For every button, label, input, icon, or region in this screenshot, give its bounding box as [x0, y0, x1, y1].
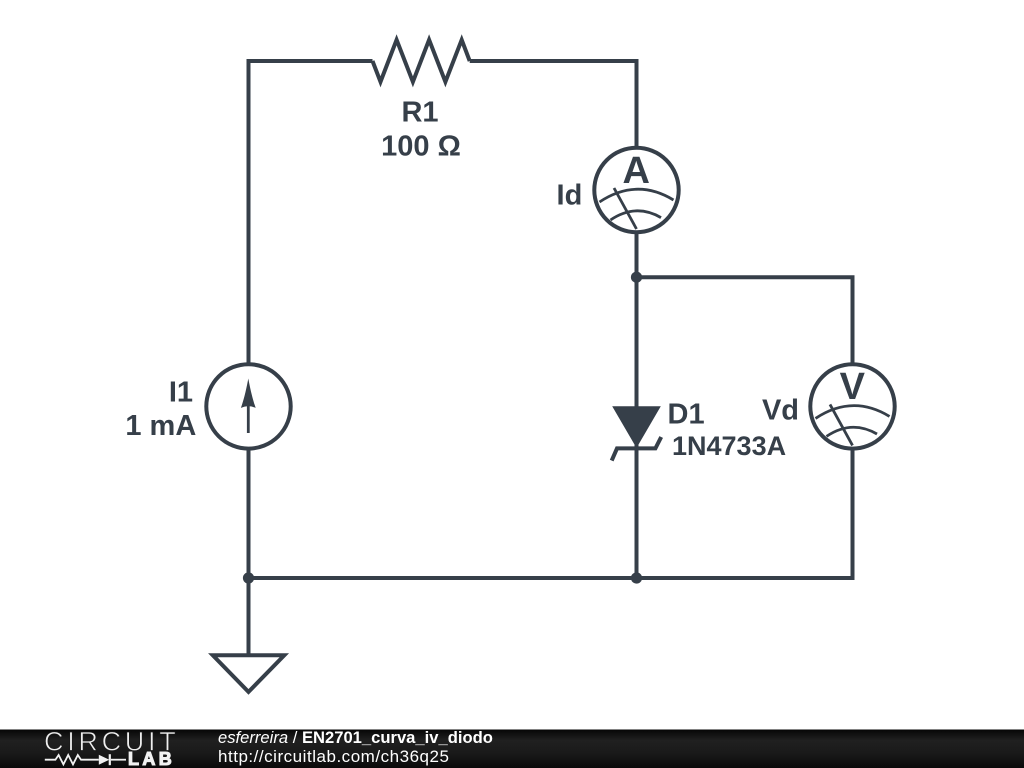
- ammeter scale arc 1: [600, 189, 674, 202]
- node bottom-left junction (dot): [243, 572, 254, 583]
- voltmeter U-Vd circle: [810, 364, 894, 448]
- svg-text:esferreira / EN2701_curva_iv_d: esferreira / EN2701_curva_iv_diodo: [218, 728, 493, 747]
- wire bottom rail: [249, 576, 637, 580]
- svg-text:1 mA: 1 mA: [125, 410, 196, 442]
- svg-text:LAB: LAB: [128, 749, 175, 768]
- ammeter U-Id circle: [594, 148, 678, 232]
- svg-text:A: A: [622, 150, 649, 192]
- wire voltmeter bottom to bottom rail: [637, 449, 853, 578]
- voltmeter scale arc 2: [827, 427, 878, 436]
- svg-text:D1: D1: [668, 399, 705, 431]
- svg-text:I1: I1: [169, 376, 193, 408]
- wire diode branch vertical: [635, 277, 639, 578]
- wire top-right segment down to ammeter: [470, 61, 637, 147]
- wire ammeter bottom to junction: [635, 233, 639, 277]
- ammeter scale arc 2: [611, 211, 662, 220]
- logo squiggle wire: [45, 755, 99, 764]
- footer bar: [0, 730, 1024, 768]
- svg-text:http://circuitlab.com/ch36q25: http://circuitlab.com/ch36q25: [218, 747, 449, 766]
- svg-text:V: V: [840, 366, 866, 408]
- voltmeter needle: [830, 404, 853, 445]
- svg-text:Vd: Vd: [762, 395, 799, 427]
- current source I1 circle: [206, 364, 290, 448]
- wire current source bottom to ground: [247, 449, 251, 656]
- diode D1 zener bar: [612, 437, 662, 461]
- node junction bottom (dot): [631, 572, 642, 583]
- svg-text:100 Ω: 100 Ω: [381, 131, 461, 163]
- ammeter needle: [614, 188, 637, 229]
- svg-text:R1: R1: [401, 97, 438, 129]
- voltmeter scale arc 1: [816, 406, 890, 419]
- current source I1 arrow: [247, 398, 250, 433]
- resistor R1: [373, 40, 470, 82]
- logo diode symbol: [99, 755, 110, 765]
- svg-text:Id: Id: [557, 180, 583, 212]
- node junction top (dot): [631, 272, 642, 283]
- ground: [213, 655, 284, 692]
- diode D1 triangle: [612, 406, 661, 448]
- wire left vertical + top-left segment: [249, 61, 373, 364]
- svg-text:1N4733A: 1N4733A: [672, 431, 786, 461]
- wire junction right and down to voltmeter: [637, 277, 853, 364]
